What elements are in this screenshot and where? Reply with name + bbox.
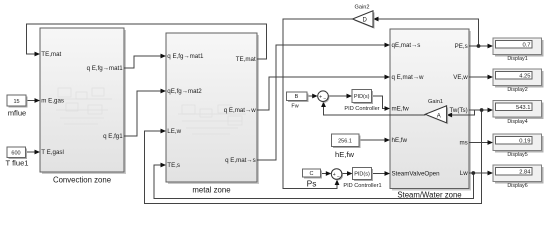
svg-text:2.84: 2.84 (519, 169, 531, 175)
svg-text:Ps: Ps (307, 178, 317, 188)
svg-text:Display2: Display2 (507, 87, 527, 93)
svg-text:q E,mat→s: q E,mat→s (225, 157, 256, 164)
svg-text:SteamValveOpen: SteamValveOpen (392, 171, 441, 178)
svg-text:Tw(Ts): Tw(Ts) (449, 107, 467, 114)
svg-text:543.1: 543.1 (516, 105, 531, 111)
svg-text:m E,gas: m E,gas (41, 98, 64, 105)
svg-text:A: A (437, 113, 441, 119)
svg-text:D: D (363, 17, 368, 23)
svg-text:−: − (323, 97, 326, 103)
svg-text:Lw: Lw (460, 170, 468, 177)
svg-text:Fw: Fw (291, 103, 298, 109)
svg-text:0.19: 0.19 (519, 138, 530, 144)
svg-text:hE,fw: hE,fw (392, 137, 408, 144)
svg-text:q E,mat→w: q E,mat→w (392, 74, 425, 81)
svg-text:4.25: 4.25 (519, 73, 530, 79)
svg-text:T E,gasl: T E,gasl (41, 149, 64, 156)
svg-text:Gain1: Gain1 (428, 99, 443, 105)
svg-text:256.1: 256.1 (338, 138, 352, 144)
svg-text:PE,s: PE,s (455, 43, 468, 50)
svg-text:−: − (337, 175, 340, 181)
svg-text:q E,fg→mat1: q E,fg→mat1 (87, 65, 124, 72)
svg-text:q E,mat→w: q E,mat→w (224, 107, 257, 114)
svg-text:PID(s): PID(s) (354, 94, 370, 100)
svg-text:ms: ms (459, 140, 467, 147)
svg-text:TE,s: TE,s (167, 162, 180, 169)
svg-text:600: 600 (11, 151, 20, 157)
svg-text:TE,mat: TE,mat (236, 56, 256, 63)
svg-text:PID Controller1: PID Controller1 (343, 183, 381, 189)
svg-text:Steam/Water zone: Steam/Water zone (397, 191, 461, 200)
svg-text:hE,fw: hE,fw (335, 150, 355, 159)
svg-text:q E,fg→mat1: q E,fg→mat1 (167, 53, 204, 60)
svg-text:mflue: mflue (8, 108, 27, 117)
svg-text:q E,fg1: q E,fg1 (103, 133, 123, 140)
svg-text:Convection zone: Convection zone (53, 175, 111, 184)
svg-text:TE,mat: TE,mat (41, 51, 61, 58)
svg-text:qE,fg→mat2: qE,fg→mat2 (167, 88, 202, 95)
svg-text:0.7: 0.7 (522, 42, 530, 48)
svg-text:B: B (295, 94, 299, 100)
svg-text:VE,w: VE,w (453, 74, 468, 81)
svg-text:PID Controller: PID Controller (344, 106, 379, 112)
svg-text:qE,mat→s: qE,mat→s (392, 42, 421, 49)
svg-text:PID(s): PID(s) (354, 172, 370, 178)
svg-text:Gain2: Gain2 (355, 4, 370, 10)
svg-text:Display5: Display5 (507, 152, 527, 158)
svg-text:T flue1: T flue1 (5, 158, 28, 167)
svg-text:LE,w: LE,w (167, 128, 181, 135)
svg-text:mE,fw: mE,fw (392, 106, 410, 113)
svg-text:15: 15 (13, 99, 19, 105)
svg-text:Display6: Display6 (507, 183, 527, 189)
svg-text:Display1: Display1 (507, 56, 527, 62)
svg-text:+: + (319, 94, 322, 100)
svg-text:Display4: Display4 (507, 119, 527, 125)
svg-text:metal zone: metal zone (192, 186, 230, 195)
svg-text:C: C (310, 171, 314, 177)
svg-text:+: + (333, 172, 336, 178)
